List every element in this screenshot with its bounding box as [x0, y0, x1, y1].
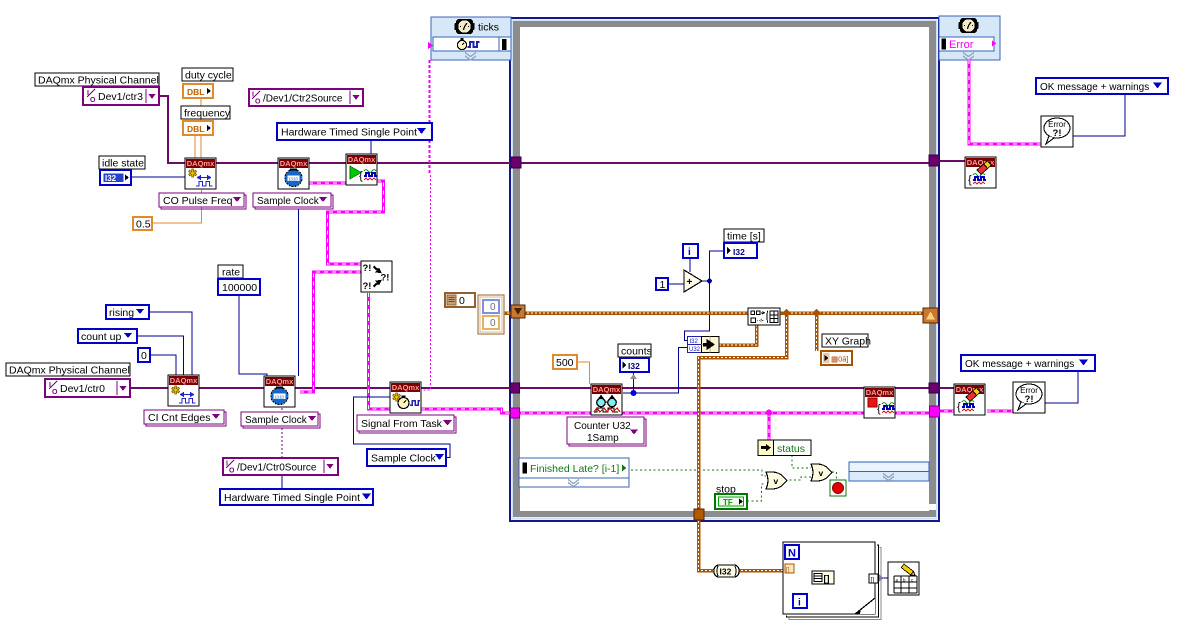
svg-text:0: 0 — [459, 295, 465, 307]
function: bundle I32/U32 — [688, 337, 720, 354]
DBL constant duty cycle — [183, 84, 213, 98]
VI icon: DAQmx Read — [591, 384, 622, 415]
timed loop frame — [510, 18, 939, 521]
svg-text:i: i — [798, 598, 801, 609]
wire: merge errors out to export VI (magenta dashed) — [369, 293, 391, 409]
label: frequency — [181, 106, 231, 120]
dropdown: CO Pulse Freq — [159, 193, 246, 209]
I/O control /Dev1/Ctr2Source — [249, 89, 363, 106]
tunnel: brown bottom border — [694, 509, 704, 520]
svg-text:Sample Clock: Sample Clock — [371, 453, 437, 465]
I32 control idle state — [100, 170, 131, 185]
wire: error out of loop to clear2 and Error dialog 2 (magenta dashed) — [936, 410, 1013, 413]
wire: status to OR2 (green dotted) — [792, 455, 811, 468]
svg-text:500: 500 — [556, 357, 574, 369]
label: idle state — [99, 156, 145, 170]
wire: 500 to read VI (orange) — [577, 362, 590, 384]
wire: 1 const to add (blue) — [667, 283, 684, 285]
constant: 500 — [553, 355, 577, 369]
wire: export error-out to ticks node (thin dotted magenta) — [429, 60, 431, 175]
shift register right (up arrow) — [923, 308, 938, 323]
dropdown: Sample Clock (blue) — [367, 449, 446, 466]
svg-text:idle state: idle state — [102, 158, 144, 170]
terminal: i (iteration) — [683, 244, 698, 258]
wire: error start1 to merge errors in1 (magenta dashed) — [328, 181, 384, 264]
svg-text:status: status — [777, 443, 805, 455]
VI icon: Write To Spreadsheet File — [888, 562, 919, 595]
wire: OK message 1 to error dialog 1 (blue) — [1073, 94, 1125, 136]
function: Or gate 1 — [766, 472, 787, 489]
svg-text:Dev1/ctr0: Dev1/ctr0 — [60, 383, 105, 395]
shift register left (down arrow) — [511, 305, 525, 318]
function: add — [684, 270, 702, 292]
wire: bundle out to replace array (brown) — [719, 325, 757, 345]
VI icon: DAQmx Start Task — [346, 154, 377, 185]
svg-text:rate: rate — [222, 267, 240, 279]
I/O control Dev1/ctr3 — [83, 87, 159, 105]
terminal: XY Graph — [821, 351, 852, 365]
svg-text:N: N — [788, 548, 796, 560]
indicator: I32 counts — [620, 358, 649, 372]
svg-text:OK message + warnings: OK message + warnings — [1040, 82, 1149, 93]
wire: duty cycle down (orange) — [200, 98, 202, 158]
label: DAQmx Physical Channel (top) — [35, 73, 159, 87]
dropdown: count up — [78, 329, 137, 343]
wire: OK message 2 to error dialog 2 (blue) — [1045, 371, 1078, 403]
for loop frame — [783, 542, 881, 620]
constant: 0.5 — [133, 217, 152, 231]
cluster constant with two zeros — [478, 295, 504, 334]
wire: OR1 out to OR2 (green dotted) — [785, 477, 811, 480]
svg-text:?!: ?! — [363, 263, 372, 274]
dropdown: OK message + warnings (top) — [1036, 78, 1168, 94]
label: rate — [218, 265, 243, 279]
svg-text:Hardware Timed Single Point: Hardware Timed Single Point — [224, 492, 360, 504]
label: counts — [618, 344, 652, 358]
svg-text:U32: U32 — [689, 347, 701, 353]
svg-text:OK message + warnings: OK message + warnings — [965, 359, 1074, 370]
svg-text:I32: I32 — [720, 567, 732, 577]
wire: HTSP2 to Ctr0Source (blue) — [281, 474, 283, 489]
tunnel: error right (magenta) — [930, 406, 940, 417]
svg-text:?!: ?! — [363, 281, 372, 292]
dropdown: Sample Clock (bottom purple) — [241, 412, 320, 428]
VI icon: DAQmx Clear Task (bottom right) — [954, 384, 985, 415]
svg-text:Sample Clock: Sample Clock — [257, 196, 320, 207]
constant: 1 — [656, 278, 668, 291]
wire: sample clock3 to export VI (blue) — [354, 397, 451, 458]
wire: cluster array main (brown) — [503, 311, 923, 315]
wire: sample clock1 down column (blue) — [298, 209, 300, 376]
terminal: loop stop button — [830, 480, 846, 496]
svg-text:[]: [] — [824, 574, 830, 584]
function: To I32 conversion — [714, 565, 739, 577]
svg-text:+: + — [687, 277, 693, 288]
wire: boolean finished late to OR1 (green dotted) — [631, 470, 766, 476]
VI icon: DAQmx Timing (top) — [278, 158, 309, 189]
dropdown: Signal From Task — [357, 415, 456, 433]
svg-text:XY Graph: XY Graph — [825, 336, 871, 348]
svg-text:v: v — [819, 468, 824, 478]
dropdown: Sample Clock (top) — [253, 193, 333, 209]
constant: 100000 — [218, 279, 260, 295]
wire: brown branch down through loop to for loop — [699, 313, 787, 571]
svg-text:?!: ?! — [1025, 394, 1034, 405]
tunnel: task wire left (purple) — [511, 157, 521, 168]
junction: error wire dot — [766, 410, 772, 416]
svg-text:Error: Error — [949, 39, 974, 51]
svg-text:CO Pulse Freq: CO Pulse Freq — [163, 195, 233, 207]
label: XY Graph — [822, 334, 871, 348]
dropdown: Hardware Timed Single Point (top) — [277, 123, 432, 140]
svg-text:/Dev1/Ctr0Source: /Dev1/Ctr0Source — [237, 463, 317, 474]
svg-text:counts: counts — [621, 346, 652, 358]
svg-text:O: O — [52, 389, 58, 396]
wire: 0 const to createCI (blue) — [149, 355, 176, 375]
wire: brown thin inside for loop — [793, 569, 812, 578]
junction: brown diamonds — [782, 309, 790, 317]
svg-text:ticks: ticks — [478, 22, 499, 34]
wire: HTSP1 down to start VI (blue) — [370, 140, 372, 154]
wire: index array out to write file (blue) — [834, 577, 888, 579]
svg-text:DBL: DBL — [187, 124, 204, 134]
svg-text:i: i — [688, 247, 691, 258]
svg-text:0: 0 — [490, 318, 496, 329]
svg-text:✱: ✱ — [188, 168, 197, 180]
svg-text:1Samp: 1Samp — [587, 433, 619, 444]
wire: OR2 out to loop stop terminal (green dotted) — [832, 472, 837, 480]
node: Finished Late? [i-1] — [519, 458, 629, 487]
wire: count up to createCI (blue) — [137, 336, 184, 375]
svg-text:▦0ā]: ▦0ā] — [831, 355, 849, 364]
tunnel: error left (magenta) — [511, 408, 520, 418]
svg-text:[]: [] — [871, 577, 875, 584]
VI icon: DAQmx Export Signals — [390, 382, 421, 413]
svg-text:Sample Clock: Sample Clock — [245, 415, 308, 426]
svg-text:TF: TF — [723, 498, 733, 507]
timed loop right output node (Error) — [939, 16, 1000, 60]
terminal: i (for loop) — [793, 594, 807, 609]
svg-text:v: v — [774, 476, 779, 486]
VI icon: DAQmx Create Virtual Channel (CO) — [185, 158, 216, 189]
svg-text:Signal From Task: Signal From Task — [361, 418, 443, 430]
svg-text:DAQmx Physical Channel: DAQmx Physical Channel — [38, 75, 159, 87]
function: Replace Array Subset — [748, 308, 780, 325]
wire: read counts out to counts indicator and bundle (blue) — [623, 348, 688, 394]
wire: DAQmx task (bottom row, purple) — [130, 387, 954, 389]
wire: i terminal to add (blue) — [689, 258, 691, 272]
wire: brown branch to XY graph terminal — [815, 313, 819, 351]
svg-text:DAQmx Physical Channel: DAQmx Physical Channel — [9, 365, 130, 377]
svg-text:✱: ✱ — [171, 385, 180, 397]
unbundle: status — [758, 440, 811, 456]
svg-text:O: O — [90, 97, 96, 104]
svg-text:0: 0 — [490, 302, 496, 313]
svg-text:I32: I32 — [105, 174, 117, 183]
timed loop left input node (ticks) — [428, 17, 511, 60]
svg-text:13:10: 13:10 — [274, 394, 284, 399]
svg-text:Finished Late? [i-1]: Finished Late? [i-1] — [530, 463, 619, 475]
svg-text:13:10: 13:10 — [288, 176, 298, 181]
I/O control /Dev1/Ctr0Source — [223, 458, 338, 475]
svg-text:Counter U32: Counter U32 — [574, 421, 631, 432]
DBL constant frequency — [183, 121, 213, 135]
VI icon: DAQmx Create Virtual Channel (CI) — [168, 375, 199, 406]
svg-text:count up: count up — [81, 331, 121, 343]
control: stop TF — [715, 494, 747, 509]
svg-text:1: 1 — [660, 279, 666, 291]
wire: idle state to create1 (blue) — [131, 176, 185, 178]
wire: frequency down (orange) — [194, 135, 196, 158]
tunnel: for loop left [] — [785, 564, 794, 574]
tunnel: for loop right [] — [869, 574, 878, 584]
svg-text:rising: rising — [109, 307, 134, 319]
label: duty cycle — [182, 68, 233, 82]
VI icon: DAQmx Stop Task — [864, 387, 895, 418]
wire: rising to createCI (blue) — [149, 312, 192, 375]
terminal: N count — [785, 545, 799, 560]
VI icon: Simple Error Handler (bottom) — [1013, 382, 1045, 413]
svg-text:I32: I32 — [628, 361, 640, 371]
svg-text:time [s]: time [s] — [727, 231, 761, 243]
dropdown: Hardware Timed Single Point (bottom) — [220, 489, 373, 505]
svg-text:I32: I32 — [733, 247, 745, 257]
VI icon: DAQmx Clear Task (top right) — [965, 157, 996, 188]
VI icon: Merge Errors — [361, 261, 392, 292]
wire: stop TF to OR1 (green dotted) — [747, 484, 766, 501]
svg-text:0.5: 0.5 — [136, 219, 151, 231]
svg-text:/Dev1/Ctr2Source: /Dev1/Ctr2Source — [263, 94, 343, 105]
wire: Ctr0Source to timing VI (purple dotted) — [281, 408, 283, 458]
VI icon: Simple Error Handler (top) — [1041, 116, 1073, 147]
svg-text:O: O — [229, 468, 235, 475]
wire: 0.5 to create1 (orange) — [152, 190, 202, 223]
tunnel: task wire right top (purple) — [929, 155, 939, 166]
svg-text:CI Cnt Edges: CI Cnt Edges — [148, 412, 210, 424]
tunnel: task2 right (purple) — [929, 383, 939, 393]
function: Index Array — [812, 571, 834, 584]
svg-text:100000: 100000 — [222, 282, 257, 294]
svg-text:[]: [] — [786, 567, 790, 574]
wire: error node output top-right (magenta dashed) — [969, 60, 1041, 144]
wire: DAQmx task (top row, purple) — [159, 96, 933, 163]
dropdown: rising — [106, 305, 149, 319]
label: DAQmx Physical Channel (bottom) — [6, 363, 130, 377]
dropdown: CI Cnt Edges — [144, 410, 226, 426]
dropdown: Counter U32 1Samp — [567, 417, 646, 446]
svg-text:frequency: frequency — [184, 108, 231, 120]
I/O control Dev1/ctr0 — [45, 379, 130, 397]
wire: error from timing1 to start1 (magenta dashed) — [309, 182, 346, 185]
label: stop — [715, 483, 737, 496]
svg-text:?!: ?! — [1053, 128, 1062, 139]
indicator: I32 time — [724, 243, 757, 258]
wire: error export VI into loop and across (magenta dashed) — [421, 409, 930, 413]
VI icon: DAQmx Timing (bottom) — [264, 376, 295, 407]
array constant index box — [445, 293, 475, 307]
svg-text:duty cycle: duty cycle — [185, 70, 232, 82]
svg-text:O: O — [255, 99, 261, 106]
label: time [s] — [724, 229, 764, 243]
wire: error branch down to status unbundle (magenta dashed) — [768, 413, 771, 440]
svg-text:?!: ?! — [381, 273, 390, 284]
svg-text:DBL: DBL — [187, 87, 204, 97]
constant: 0 — [138, 348, 150, 362]
wire: rate 100000 to timing2 (blue) — [239, 295, 267, 377]
svg-text:0: 0 — [141, 350, 147, 362]
wire: error timing2 to merge errors in2 (magenta dashed) — [300, 272, 361, 392]
tunnel: task2 left (purple) — [511, 383, 520, 393]
svg-text:Dev1/ctr3: Dev1/ctr3 — [98, 91, 143, 103]
dropdown: OK message + warnings (bottom) — [961, 355, 1095, 371]
function: Or gate 2 — [811, 464, 832, 481]
svg-text:Hardware Timed Single Point: Hardware Timed Single Point — [281, 127, 417, 139]
node: timed loop right data node — [849, 462, 929, 481]
wire: add out to time indicator and bundle (blue) — [685, 251, 725, 341]
